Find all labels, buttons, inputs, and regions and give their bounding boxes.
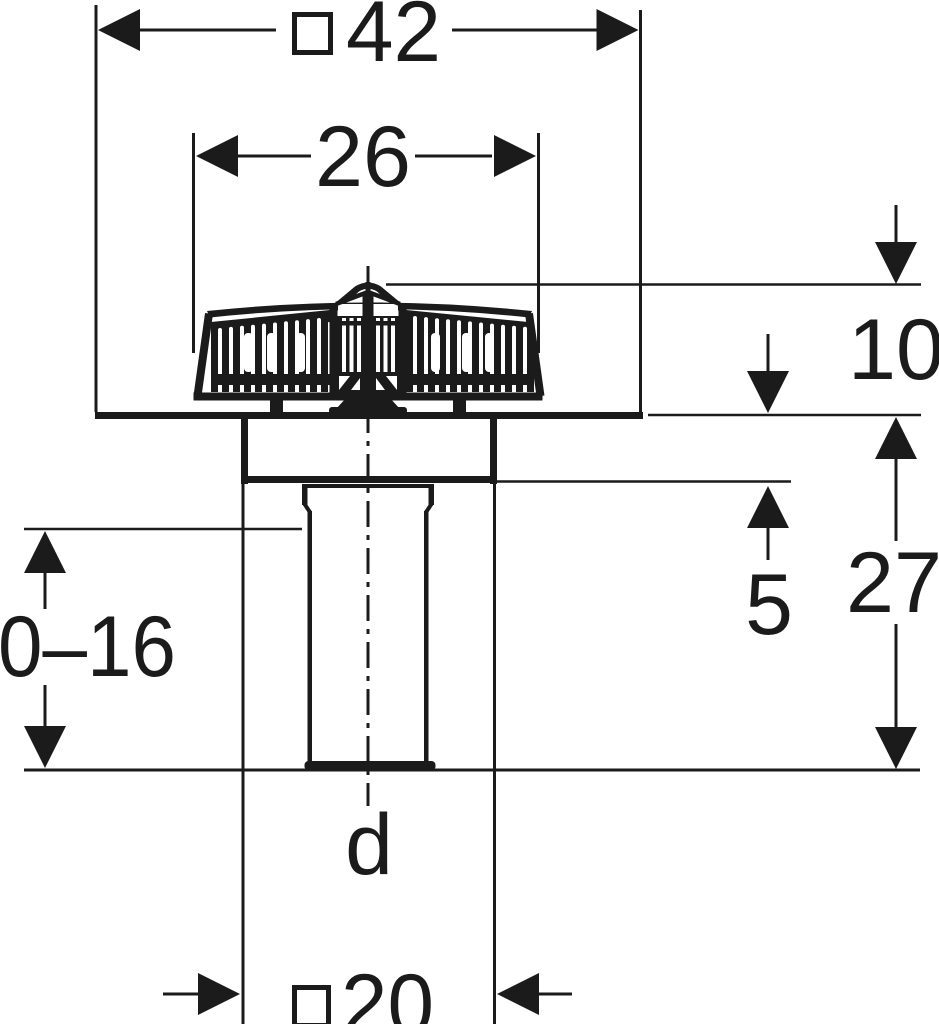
svg-text:d: d xyxy=(345,797,393,893)
svg-text:27: 27 xyxy=(846,535,939,631)
svg-text:26: 26 xyxy=(315,109,411,205)
svg-text:20: 20 xyxy=(341,957,434,1024)
svg-text:0–16: 0–16 xyxy=(0,599,176,695)
svg-text:5: 5 xyxy=(745,557,793,653)
svg-text:10: 10 xyxy=(848,302,939,398)
svg-text:42: 42 xyxy=(346,0,441,80)
